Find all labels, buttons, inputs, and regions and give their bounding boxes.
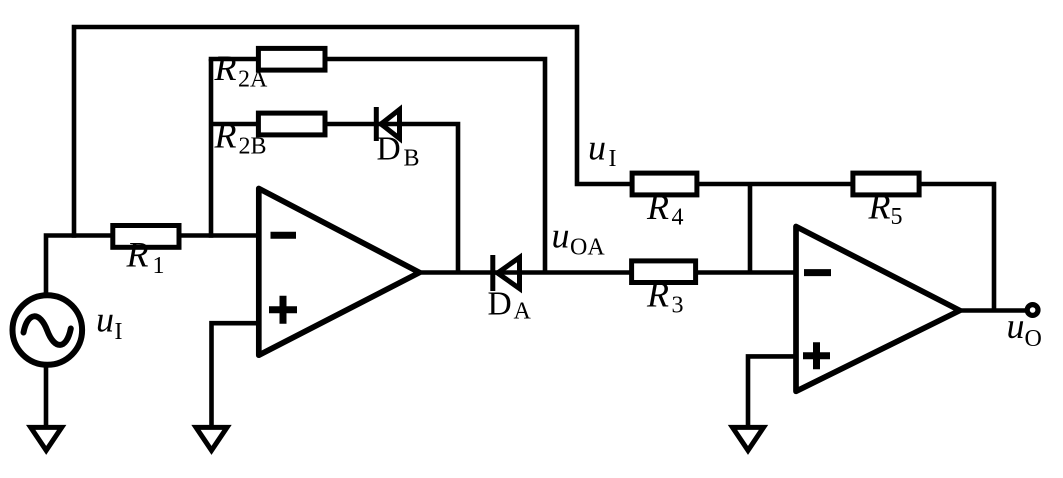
resistor R2B xyxy=(258,113,325,135)
svg-text:u: u xyxy=(1007,306,1025,346)
svg-text:5: 5 xyxy=(891,204,903,230)
svg-text:2B: 2B xyxy=(239,133,267,159)
wire: U1 non-inverting input to ground xyxy=(212,323,262,427)
wire: top feedback rail from input node to R4 xyxy=(74,27,633,238)
svg-text:I: I xyxy=(609,146,617,172)
svg-text:OA: OA xyxy=(570,235,605,261)
wire: R4/R3 junction vertical xyxy=(748,184,753,273)
svg-text:B: B xyxy=(404,145,420,171)
svg-text:R: R xyxy=(646,187,669,227)
wire: junction to R2A left xyxy=(209,57,260,62)
ground (U1 non-inverting) xyxy=(196,427,227,450)
svg-text:D: D xyxy=(488,286,512,323)
svg-text:R: R xyxy=(126,235,149,275)
svg-text:R: R xyxy=(868,187,891,227)
wire: R3 to U2 inverting input xyxy=(697,270,798,275)
AC source circle xyxy=(13,295,83,365)
svg-text:u: u xyxy=(96,300,114,340)
wire: U2 output to terminal xyxy=(959,308,1026,313)
op-amp U1 triangle xyxy=(259,189,420,356)
resistor R4 xyxy=(632,173,697,195)
output terminal circle xyxy=(1027,305,1038,316)
wire: source bottom to ground xyxy=(44,366,49,427)
wire: inverting node up to R2A xyxy=(209,59,214,238)
wire: U2 non-inverting input to ground xyxy=(748,356,798,427)
resistor R2A xyxy=(258,48,325,70)
wire: R4 right to R5 left xyxy=(696,182,854,187)
svg-text:1: 1 xyxy=(153,253,165,279)
svg-text:u: u xyxy=(588,128,606,168)
wire: R5 right to U2 output node xyxy=(918,184,994,311)
svg-text:A: A xyxy=(514,298,532,324)
diode DA cathode bar xyxy=(490,255,495,291)
ground (source) xyxy=(31,427,62,450)
svg-text:u: u xyxy=(552,216,570,256)
svg-text:R: R xyxy=(214,115,237,155)
op-amp U2 triangle xyxy=(796,227,960,392)
wire: U1 output through DA to node uOA and R3 xyxy=(418,270,634,275)
wire: R2A right to feedback node uOA xyxy=(324,59,545,273)
diode DB cathode bar xyxy=(374,107,379,141)
svg-text:O: O xyxy=(1025,326,1042,352)
wire: source top to R1 xyxy=(46,236,113,295)
svg-text:R: R xyxy=(646,274,669,314)
svg-text:4: 4 xyxy=(672,204,684,230)
resistor R1 xyxy=(113,226,179,248)
wire: R1 to U1 inverting input xyxy=(178,233,261,238)
svg-text:2A: 2A xyxy=(238,67,268,93)
ground (U2 non-inverting) xyxy=(733,427,764,450)
svg-text:R: R xyxy=(214,48,237,88)
U2 inverting input marker xyxy=(804,269,831,276)
svg-text:3: 3 xyxy=(672,293,684,319)
resistor R3 xyxy=(632,261,696,283)
U1 non-inverting input marker xyxy=(269,296,297,324)
svg-text:I: I xyxy=(115,319,123,345)
wire: R2B right through DB to U1 output loop xyxy=(324,124,458,273)
svg-text:D: D xyxy=(377,131,401,168)
resistor R5 xyxy=(853,173,919,195)
diode DB triangle xyxy=(381,110,400,139)
U1 inverting input marker xyxy=(271,232,297,239)
wire: junction to R2B left xyxy=(211,122,260,127)
U2 non-inverting input marker xyxy=(803,342,830,369)
diode DA triangle xyxy=(498,258,520,289)
AC source sine wave xyxy=(24,316,71,345)
